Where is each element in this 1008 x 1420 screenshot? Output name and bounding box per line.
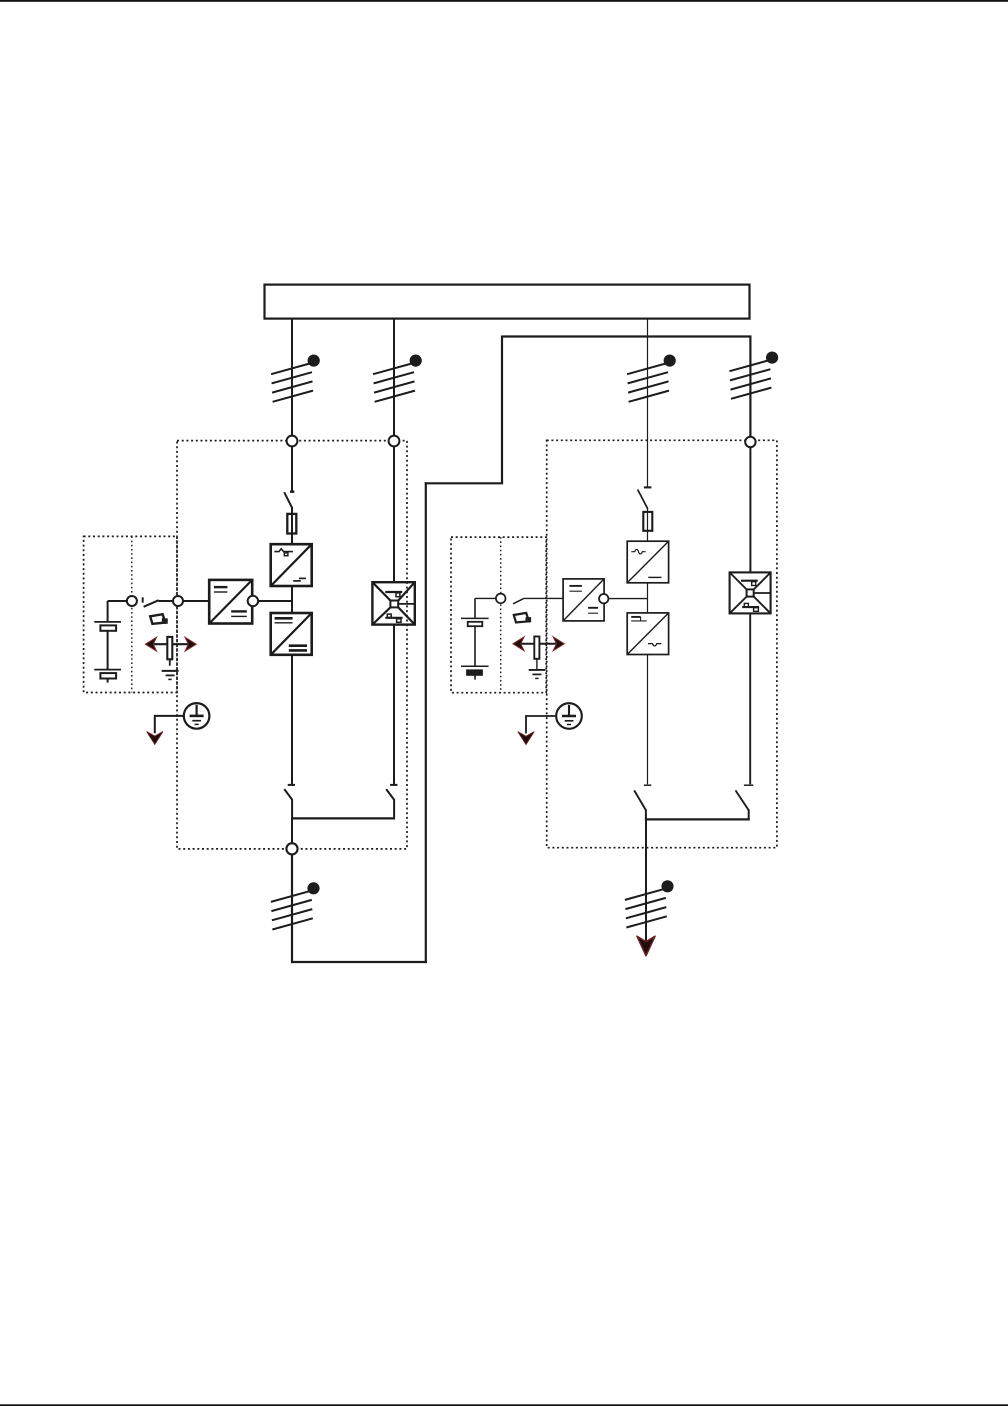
wire: switch to rectifier through fuse <box>291 507 293 545</box>
wire: UPS2 output feeder below box <box>645 819 647 944</box>
switch S5 blade <box>638 490 648 509</box>
wire: inverter down to UPS1 output isolator <box>291 655 293 784</box>
UPS1 output isolator S3 blade <box>284 789 292 800</box>
fuse F1 <box>287 514 296 534</box>
node: UPS1 output <box>286 843 297 854</box>
wire: static switch to UPS1 bypass output isolator <box>393 625 395 784</box>
wire: battery to battery switch <box>108 600 132 602</box>
static bypass switch U4 (UPS1) <box>372 582 414 624</box>
UPS2 bypass isolator S8 blade <box>736 790 749 810</box>
wire: rectifier to inverter (DC link) <box>291 586 293 614</box>
wire: UPS1 rectifier input stub <box>291 441 293 491</box>
wire: UPS1 bypass input to static switch <box>393 441 395 582</box>
earth arrow (UPS2, maroon) <box>518 732 534 745</box>
wire: battery to battery switch (UPS2) <box>475 597 501 599</box>
switch motor-operator flag symbol <box>150 614 167 624</box>
wire: UPS1 output joining bar <box>291 817 394 819</box>
wire: PE circle to ground arrow (UPS2) <box>526 716 556 733</box>
earth arrow (UPS1, maroon) <box>147 732 163 745</box>
EMC capacitor with double arrow (UPS2) <box>513 637 564 679</box>
wire: blade into charger (UPS2) <box>523 597 563 599</box>
page bottom rule <box>0 1404 1008 1406</box>
node: UPS2 bypass input <box>745 437 755 447</box>
battery converter U7 (DC/DC, UPS2) <box>563 579 604 621</box>
UPS1 battery cabinet dotted enclosure <box>84 536 177 692</box>
fuse F2 <box>643 512 652 531</box>
circuit breaker Q6 (UPS2 output) <box>625 881 673 927</box>
wire: DC link to battery converter node <box>253 600 292 602</box>
load arrow (UPS2 output, to load) <box>637 936 655 956</box>
battery converter U3 (DC/DC) <box>209 580 252 624</box>
battery B1 <box>94 601 121 683</box>
switch motor-operator flag symbol (UPS2) <box>514 613 530 623</box>
circuit breaker Q5 (UPS1 output) <box>271 883 319 929</box>
static bypass switch U8 (UPS2) <box>730 572 771 613</box>
UPS2 output isolator S7 blade <box>634 790 646 810</box>
wire: rectifier to inverter (UPS2 DC link) <box>647 583 649 613</box>
node: battery cabinet terminal <box>127 596 137 606</box>
wire: UPS2 output joining bar <box>645 818 750 820</box>
wire: tie line vertical at x=750 down to UPS2 bypass node <box>749 336 751 443</box>
wire: blade to output junction <box>291 799 293 820</box>
wire: tie line horizontal upper (UPS1 output to UPS2 bypass) <box>502 335 752 337</box>
switch S1 blade (open isolator) <box>284 492 292 508</box>
EMC capacitor with double arrow (UPS1) <box>145 637 196 680</box>
wire: drop 1 from bus to UPS1 rectifier input node <box>291 319 293 441</box>
wire: UPS1 output feeder below box <box>291 849 293 964</box>
inverter U6 (DC/AC, UPS2) <box>627 613 668 655</box>
wire: junction down to output node <box>291 818 293 848</box>
wire: blade to node and into charger <box>159 600 210 602</box>
node: battery converter DC terminal <box>248 596 258 606</box>
wire: tie line horizontal bottom from UPS1 output <box>291 961 427 963</box>
PE earth terminal (UPS2) <box>556 703 582 729</box>
node: UPS1 cabinet battery terminal <box>173 596 183 606</box>
inverter U2 (DC/AC) <box>271 613 312 655</box>
PE earth terminal (UPS1): circle with earth symbol <box>184 703 210 729</box>
wire: blade to output junction (UPS2) <box>645 810 647 821</box>
battery switch S2 blade <box>144 600 159 607</box>
UPS2 cabinet dotted enclosure <box>547 440 777 847</box>
wire: switch to rectifier through fuse <box>647 508 649 542</box>
switch S5 fixed contact tick (UPS2 rectifier input) <box>644 486 652 488</box>
node: UPS2 battery converter DC terminal <box>599 594 608 603</box>
rectifier U1 (AC/DC converter) <box>271 544 312 586</box>
UPS2 bypass isolator S8 tick <box>744 784 753 786</box>
switch S1 fixed contact tick <box>290 491 294 493</box>
node: UPS1 bypass input <box>389 436 400 447</box>
page top rule <box>0 0 1008 2</box>
wire: drop 2 from bus to UPS1 bypass input node <box>393 319 395 441</box>
wire: bypass blade down <box>393 799 395 820</box>
UPS2 battery cabinet dotted enclosure <box>451 537 546 693</box>
wire: tie line vertical at x=425.8 <box>425 482 427 963</box>
circuit breaker Q3 (drop 3) <box>627 356 675 402</box>
wire: tie line horizontal at y=483 <box>425 482 503 484</box>
circuit breaker Q2 (drop 2) <box>373 356 421 402</box>
circuit breaker Q4 (UPS2 bypass feed) <box>730 353 778 399</box>
UPS1 bypass output isolator S4 tick <box>390 784 397 786</box>
battery switch S2 fixed contact tick <box>142 597 144 602</box>
UPS1 cabinet dotted enclosure <box>177 441 407 849</box>
wire: UPS2 bypass node to static switch <box>749 442 751 572</box>
circuit breaker Q1 (drop 1, drawout breaker hash marks with dot) <box>271 356 319 402</box>
node: UPS2 battery cabinet terminal <box>496 594 506 604</box>
wire: DC link to battery converter node (UPS2) <box>604 598 648 600</box>
battery switch S6 blade (UPS2) <box>513 599 523 604</box>
rectifier U5 (AC/DC converter, UPS2) <box>627 541 668 583</box>
wire: inverter down to UPS2 output isolator <box>647 655 649 785</box>
UPS1 battery cabinet divider (dotted) <box>131 536 133 692</box>
UPS1 output isolator S3 tick <box>288 784 295 786</box>
wire: static switch to UPS2 bypass isolator <box>749 613 751 784</box>
wire: tie line vertical at x=502 <box>501 336 503 484</box>
UPS2 battery cabinet divider (dotted) <box>500 537 502 693</box>
wire: drop 3 from bus to UPS2 rectifier input <box>647 319 649 487</box>
wire: PE circle to ground arrow <box>155 716 184 733</box>
UPS1 bypass output isolator S4 blade <box>386 789 394 800</box>
bus bar (input distribution busbar) <box>265 285 750 319</box>
UPS2 output isolator S7 tick <box>644 784 651 786</box>
battery B2 <box>461 598 489 679</box>
wire: bypass blade down (UPS2) <box>748 810 750 821</box>
node: UPS1 rectifier input <box>287 436 298 447</box>
